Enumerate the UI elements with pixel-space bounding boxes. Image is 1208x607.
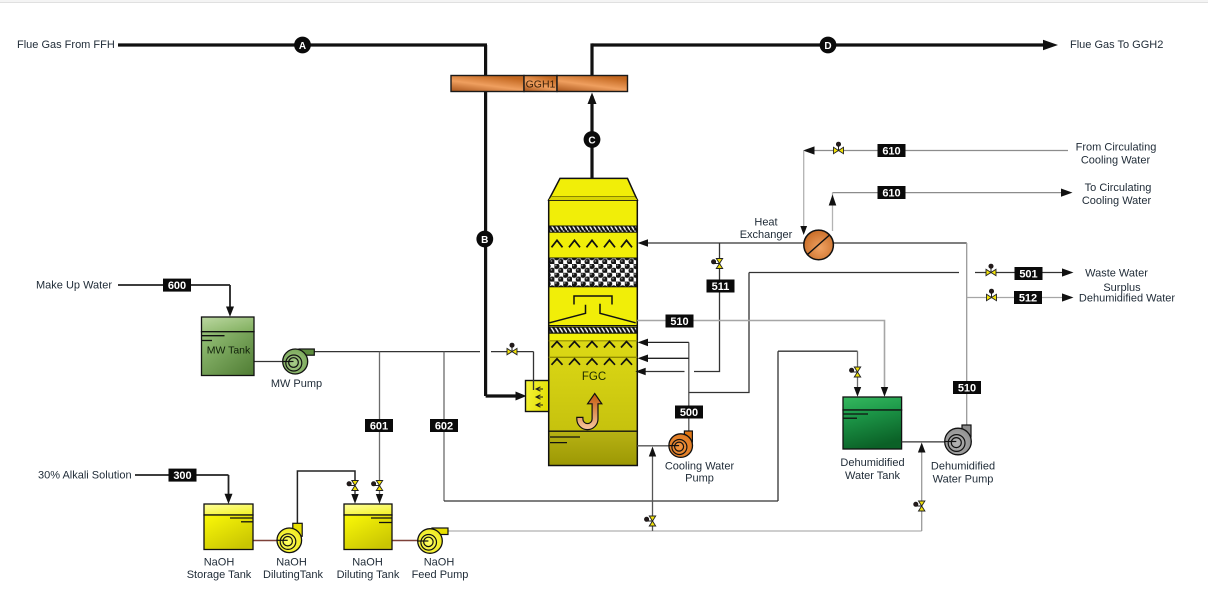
svg-text:510: 510 — [670, 316, 688, 328]
svg-text:511: 511 — [712, 281, 730, 293]
label box 501 — [1015, 267, 1043, 280]
svg-text:To Circulating: To Circulating — [1085, 182, 1152, 194]
wire MW tank suction — [254, 361, 283, 363]
wire alkali solution feed — [135, 474, 229, 476]
svg-text:300: 300 — [173, 470, 191, 482]
FGC spray chevrons row B — [552, 359, 633, 365]
label box 601 — [365, 419, 393, 432]
wire cooling water pump suction — [637, 445, 669, 447]
svg-text:A: A — [299, 41, 306, 52]
FGC spray chevrons row A — [552, 342, 633, 348]
node D stream circle — [820, 37, 837, 54]
FGC liquid distributor — [574, 296, 612, 305]
svg-text:Feed Pump: Feed Pump — [412, 569, 469, 581]
wire flue gas inlet line A horizontal — [118, 43, 487, 46]
svg-text:Dehumidified Water: Dehumidified Water — [1079, 293, 1176, 305]
svg-text:Dehumidified: Dehumidified — [931, 460, 995, 472]
label box 600 — [163, 279, 191, 292]
valve on dehumidified tank inlet (602) — [849, 367, 860, 377]
wire flue gas down-leg A to FGC inlet (vertical) — [484, 45, 487, 396]
label box 512 — [1014, 291, 1042, 304]
valve on NaOH riser to dehumidified pump — [914, 501, 925, 511]
heat exchanger GGH1 bar label segment — [524, 76, 557, 92]
wire 610 to circulating cooling water — [832, 193, 834, 231]
valve on 511 line — [711, 259, 722, 269]
label box 610 upper — [878, 144, 906, 157]
FGC sump liquid level line — [549, 430, 638, 432]
wire heat exchanger drop to dehumidified pump — [966, 243, 968, 425]
heat exchanger GGH1 bar right segment — [557, 76, 628, 92]
label box 602 — [430, 419, 458, 432]
wire 602 bottom run — [444, 500, 778, 502]
svg-text:FGC: FGC — [582, 371, 606, 383]
wire heat exchanger circuit from FGC — [643, 242, 804, 244]
FGC mist eliminator hatched band 2 — [549, 327, 636, 333]
wire NaOH storage tank to diluting pump (brown) — [253, 540, 277, 542]
svg-text:MW Tank: MW Tank — [207, 345, 251, 357]
svg-text:B: B — [481, 235, 488, 246]
svg-text:Pump: Pump — [685, 472, 714, 484]
heat exchanger U1 circle — [804, 230, 834, 260]
wire waste water header — [749, 272, 959, 274]
svg-text:Cooling Water: Cooling Water — [665, 460, 735, 472]
svg-text:Water Tank: Water Tank — [845, 470, 901, 482]
wire cooling water pump discharge riser 500 — [688, 342, 690, 431]
NaOH diluting pump — [277, 523, 302, 552]
svg-text:NaOH: NaOH — [204, 557, 235, 569]
label box 511 — [707, 280, 735, 293]
wire 610 from circulating cooling water — [808, 150, 1068, 152]
wire spray feed arrow 2 — [643, 357, 689, 359]
svg-text:Flue Gas To GGH2: Flue Gas To GGH2 — [1070, 39, 1163, 51]
svg-text:Storage Tank: Storage Tank — [187, 569, 252, 581]
wire NaOH diluting pump to diluting tank — [297, 471, 355, 523]
svg-text:500: 500 — [680, 407, 698, 419]
wire 601 branch down — [379, 352, 381, 497]
heat exchanger GGH1 bar left segment — [451, 76, 524, 92]
FGC column body upper section — [549, 200, 638, 341]
svg-text:512: 512 — [1019, 292, 1037, 304]
wire 602 top run to dehumidified tank — [778, 350, 858, 352]
svg-text:NaOH: NaOH — [352, 557, 383, 569]
wire make up water feed — [118, 284, 230, 286]
NaOH feed pump — [418, 528, 448, 553]
wire spray feed arrow 1 — [643, 341, 689, 343]
node C stream circle — [584, 131, 601, 148]
valve on 501 waste water line — [986, 264, 996, 276]
dehumidified water tank — [843, 397, 902, 449]
FGC mist eliminator hatched band 1 — [549, 226, 636, 232]
FGC spray header line B — [549, 356, 638, 358]
node A stream circle — [294, 37, 311, 54]
svg-text:MW Pump: MW Pump — [271, 378, 322, 390]
FGC column body mid section — [549, 341, 638, 431]
svg-text:GGH1: GGH1 — [526, 79, 556, 91]
svg-text:Flue Gas From FFH: Flue Gas From FFH — [17, 39, 115, 51]
wire flue gas riser C from FGC top to GGH1 — [590, 96, 593, 178]
wire 602 riser — [777, 351, 779, 501]
MW tank — [202, 317, 255, 376]
valve on diluting tank inlet 2 (601) — [371, 481, 382, 491]
wire 510 recirculation line to dehumidified tank — [637, 321, 884, 391]
FGC spray chevrons upper row — [552, 240, 633, 247]
FGC column body sump section — [549, 431, 638, 465]
wire drop into dehumidified tank arrow 1 — [857, 351, 859, 390]
NaOH storage tank — [204, 504, 253, 550]
valve on diluting tank inlet 1 — [347, 481, 358, 491]
NaOH diluting tank — [344, 504, 392, 550]
wire 512 surplus water branch — [967, 297, 1063, 299]
svg-text:DilutingTank: DilutingTank — [263, 569, 323, 581]
wire 602 branch down — [443, 352, 445, 501]
svg-text:NaOH: NaOH — [424, 557, 455, 569]
valve on MW line near FGC — [507, 343, 517, 355]
wire bottom crossover riser to cooling pump suction — [652, 451, 654, 531]
svg-text:510: 510 — [958, 382, 976, 394]
svg-text:Dehumidified: Dehumidified — [840, 457, 904, 469]
svg-text:601: 601 — [370, 420, 388, 432]
svg-text:Exchanger: Exchanger — [740, 229, 793, 241]
svg-text:D: D — [824, 41, 831, 52]
MW pump — [283, 349, 315, 374]
wire waste water takeoff riser — [689, 273, 749, 393]
svg-text:501: 501 — [1019, 268, 1037, 280]
wire NaOH diluting tank to feed pump (brown) — [392, 540, 418, 542]
svg-text:Make Up Water: Make Up Water — [36, 280, 112, 292]
FGC column outline — [549, 200, 638, 466]
label box 610 lower — [878, 186, 906, 199]
FGC top transition hood — [549, 178, 638, 200]
valve on 610 from circulating line — [834, 142, 844, 154]
wire MW pump discharge to FGC — [314, 351, 480, 353]
svg-text:Water Pump: Water Pump — [933, 473, 994, 485]
wire 511 quench line — [694, 243, 720, 372]
svg-text:600: 600 — [168, 280, 186, 292]
valve on 512 surplus line — [987, 289, 997, 301]
label box 300 — [169, 469, 197, 482]
node B stream circle — [476, 231, 493, 248]
wire NaOH feed line bottom (gray) — [448, 530, 922, 532]
label box 510 on riser — [953, 381, 981, 394]
svg-text:Diluting Tank: Diluting Tank — [337, 569, 400, 581]
wire flue gas elbow into FGC inlet box — [486, 394, 517, 397]
svg-text:602: 602 — [435, 420, 453, 432]
svg-text:Cooling Water: Cooling Water — [1082, 195, 1152, 207]
svg-text:Cooling Water: Cooling Water — [1081, 155, 1151, 167]
dehumidified water tank suction line — [902, 441, 945, 443]
svg-text:Heat: Heat — [754, 216, 777, 228]
svg-text:610: 610 — [882, 187, 900, 199]
svg-text:Waste Water: Waste Water — [1085, 268, 1148, 280]
valve on riser to cooling pump suction — [644, 516, 655, 526]
dehumidified water pump — [945, 425, 972, 455]
cooling water pump — [669, 431, 693, 457]
svg-text:From Circulating: From Circulating — [1076, 142, 1157, 154]
svg-text:NaOH: NaOH — [276, 557, 307, 569]
svg-text:30% Alkali Solution: 30% Alkali Solution — [38, 470, 132, 482]
label box 510 on horizontal — [666, 315, 694, 328]
FGC flue gas inlet box — [526, 381, 549, 412]
wire NaOH feed riser to dehumidified pump suction — [921, 448, 923, 531]
svg-text:C: C — [588, 135, 595, 146]
FGC packing checker band — [549, 258, 636, 287]
wire flue gas outlet D horizontal — [592, 43, 1044, 46]
FGC gas J-arrow — [577, 394, 602, 430]
FGC spray header line A — [549, 340, 638, 342]
label box 500 — [675, 406, 703, 419]
svg-text:610: 610 — [882, 145, 900, 157]
wire flue gas riser D above GGH1 — [590, 43, 593, 76]
